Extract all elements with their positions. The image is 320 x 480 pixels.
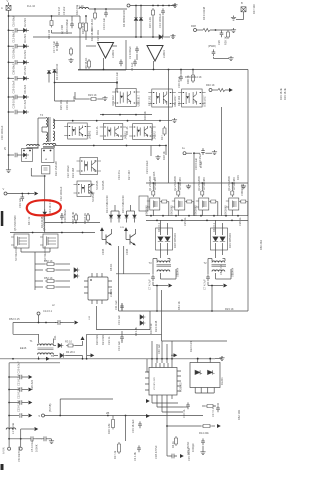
svg-text:R16 1.8k: R16 1.8k	[107, 423, 111, 434]
svg-text:C28 100uF: C28 100uF	[12, 95, 16, 108]
wire	[86, 334, 88, 359]
wire	[207, 388, 209, 394]
svg-text:R45 0.1: R45 0.1	[157, 222, 161, 232]
dual diode D19	[211, 228, 228, 250]
svg-text:R20 62K: R20 62K	[95, 335, 99, 345]
node AC	[37, 312, 40, 315]
svg-text:R19 18.4k: R19 18.4k	[279, 87, 283, 100]
svg-text:2SK2645: 2SK2645	[169, 205, 173, 216]
wire	[151, 399, 153, 403]
svg-text:R12 1R2: R12 1R2	[177, 95, 181, 106]
capacitor C5b	[41, 436, 49, 441]
winding T2 b	[212, 270, 225, 272]
junction	[193, 152, 195, 154]
svg-text:R37 330: R37 330	[252, 4, 256, 14]
svg-text:C16 6.3uF: C16 6.3uF	[194, 157, 198, 170]
node 5VSB	[42, 414, 45, 417]
wire	[86, 45, 96, 47]
resistor R31	[50, 19, 53, 28]
junction	[38, 358, 40, 360]
node Vcc	[4, 192, 7, 195]
svg-text:5V: 5V	[51, 354, 54, 358]
wire	[9, 154, 15, 156]
wire	[231, 210, 233, 216]
svg-text:R62 10K: R62 10K	[237, 410, 241, 420]
svg-text:(PWR): (PWR)	[208, 44, 216, 48]
wire	[192, 70, 194, 74]
diode D4b	[139, 18, 143, 21]
svg-text:VIN RETURN: VIN RETURN	[17, 446, 21, 462]
wire	[17, 154, 23, 156]
connector J2	[241, 7, 246, 12]
wire	[9, 45, 15, 47]
capacitor C6	[55, 320, 63, 325]
wire	[201, 183, 203, 189]
arrow	[180, 454, 184, 458]
svg-text:JA 1R2: JA 1R2	[88, 130, 92, 139]
wire mid bus	[33, 36, 159, 38]
wire	[213, 388, 215, 394]
svg-text:C16 47uF: C16 47uF	[177, 76, 181, 88]
svg-text:R33 56.2K: R33 56.2K	[81, 21, 85, 34]
junction	[157, 5, 159, 7]
wire	[247, 202, 249, 216]
junction	[51, 15, 53, 17]
wire	[74, 92, 76, 99]
wire	[59, 399, 61, 416]
junction	[116, 82, 118, 84]
wire	[42, 126, 46, 128]
svg-text:C5 0.01uF: C5 0.01uF	[30, 439, 34, 452]
ground	[219, 356, 224, 361]
wire	[167, 425, 201, 427]
arrow	[174, 353, 178, 357]
diode D5	[23, 76, 29, 80]
wire	[101, 231, 103, 240]
wire	[116, 83, 118, 93]
wire	[54, 82, 117, 84]
wire	[20, 248, 22, 252]
junction	[75, 222, 77, 224]
capacitor C2	[135, 46, 139, 53]
wire	[44, 209, 46, 212]
wire	[140, 21, 142, 37]
svg-text:C8 4.7uF: C8 4.7uF	[219, 264, 223, 275]
wire	[48, 74, 50, 83]
diode D3a	[47, 71, 51, 74]
svg-text:V: V	[3, 187, 5, 191]
ground	[228, 56, 233, 61]
wire	[17, 29, 23, 31]
wire	[202, 405, 205, 407]
diode D6	[23, 95, 29, 99]
wire	[38, 357, 40, 359]
capacitor C1	[133, 59, 137, 66]
optocoupler U7	[178, 89, 206, 107]
capacitor C19	[138, 421, 142, 428]
svg-text:R18 1K: R18 1K	[162, 151, 166, 160]
capacitor C7	[206, 274, 210, 281]
wire vertical bus D	[193, 153, 195, 216]
junction	[168, 5, 170, 7]
wire T1 pin	[53, 339, 55, 344]
junction	[156, 220, 158, 222]
junction	[156, 310, 158, 312]
resistor R17b	[118, 442, 121, 454]
wire	[17, 61, 23, 63]
wire return	[45, 415, 204, 417]
capacitor C14c	[120, 334, 124, 341]
junction	[12, 358, 14, 360]
wire	[215, 243, 217, 258]
junction	[153, 69, 155, 71]
capacitor C10	[15, 28, 17, 32]
wire	[9, 77, 15, 79]
wire	[100, 114, 152, 116]
junction	[82, 232, 84, 234]
resistor R39	[227, 30, 230, 39]
svg-text:C17 0.1: C17 0.1	[211, 407, 215, 417]
wire T3 pin	[153, 258, 157, 260]
junction	[181, 220, 183, 222]
capacitor C14	[161, 8, 165, 15]
wire	[156, 259, 158, 262]
wire	[127, 210, 135, 212]
junction	[44, 175, 46, 177]
svg-text:R3 10: R3 10	[65, 340, 72, 344]
wire	[9, 111, 15, 113]
svg-text:SC2545: SC2545	[101, 180, 105, 190]
wire	[75, 345, 83, 347]
svg-text:C7 4.7uF: C7 4.7uF	[148, 279, 152, 290]
wire	[169, 259, 171, 262]
svg-text:R19 18.4k: R19 18.4k	[283, 87, 287, 100]
wire	[111, 229, 113, 234]
junction	[177, 182, 179, 184]
svg-text:R35 36.1K: R35 36.1K	[84, 57, 88, 70]
wire	[111, 210, 119, 212]
resistor R50	[45, 263, 56, 266]
arrow	[146, 414, 150, 418]
diode D16	[125, 215, 129, 218]
junction	[200, 215, 202, 217]
wire	[38, 315, 40, 323]
capacitor C22	[20, 400, 22, 404]
wire	[123, 246, 125, 274]
svg-text:APM4048D: APM4048D	[179, 177, 182, 190]
wire	[160, 243, 162, 258]
wire	[56, 263, 70, 265]
svg-text:C17 4.7uF: C17 4.7uF	[52, 40, 56, 53]
wire	[85, 16, 87, 21]
svg-text:C19 18.4uF: C19 18.4uF	[131, 419, 135, 433]
node RETURN	[19, 447, 22, 450]
wire	[183, 406, 188, 408]
wire	[95, 306, 97, 330]
diode D2	[23, 28, 29, 32]
wire	[166, 399, 168, 450]
svg-text:C25 1n: C25 1n	[183, 217, 187, 226]
wire	[37, 118, 39, 148]
wire	[17, 77, 23, 79]
junction	[61, 232, 63, 234]
arrow	[29, 375, 33, 379]
wire	[82, 341, 84, 346]
junction	[8, 29, 10, 31]
capacitor C36	[15, 76, 17, 80]
svg-text:D3 CMR2C30: D3 CMR2C30	[55, 63, 59, 80]
junction	[126, 145, 128, 147]
wire	[31, 175, 44, 177]
arrow	[75, 321, 79, 325]
svg-text:EE16: EE16	[20, 346, 27, 350]
wire	[34, 256, 36, 290]
junction	[32, 232, 34, 234]
svg-text:SC74HC04D: SC74HC04D	[43, 246, 47, 261]
winding T2 a	[212, 261, 225, 263]
junction	[192, 69, 194, 71]
junction	[96, 120, 98, 122]
junction	[188, 215, 190, 217]
diode D20	[72, 268, 77, 272]
wire	[222, 243, 224, 252]
junction	[93, 145, 95, 147]
svg-text:Q2 2SK2645: Q2 2SK2645	[173, 176, 177, 191]
diode D3	[23, 44, 29, 48]
wire	[9, 362, 60, 364]
resistor R30	[94, 11, 97, 20]
svg-text:C9 2n2: C9 2n2	[62, 6, 66, 15]
ground	[231, 16, 236, 21]
arrow	[91, 353, 95, 357]
resistor Q2 source	[185, 200, 194, 203]
svg-text:Q5 SSP2N60: Q5 SSP2N60	[13, 215, 17, 231]
wire	[197, 359, 199, 363]
wire	[174, 3, 176, 6]
svg-text:C20 100n: C20 100n	[96, 29, 100, 41]
wire	[79, 16, 81, 21]
optocoupler U5	[112, 89, 140, 107]
junction	[180, 69, 182, 71]
optocoupler U10	[100, 124, 127, 140]
wire	[217, 202, 219, 216]
wire	[205, 152, 212, 154]
wire	[230, 269, 232, 279]
svg-text:C33 1uF: C33 1uF	[18, 198, 22, 208]
svg-text:R17: R17	[160, 135, 164, 140]
svg-text:U7 EL817: U7 EL817	[203, 95, 207, 107]
svg-text:D7 Z24: D7 Z24	[23, 99, 27, 108]
svg-text:C22 100uF: C22 100uF	[66, 165, 70, 178]
wire	[13, 333, 39, 335]
svg-text:2SK2645: 2SK2645	[223, 205, 227, 216]
junction	[8, 111, 10, 113]
svg-text:Q3 2SK2645: Q3 2SK2645	[197, 176, 201, 191]
svg-text:C2 1000uF: C2 1000uF	[128, 46, 132, 59]
svg-text:C26 1n: C26 1n	[238, 217, 242, 226]
wire	[121, 340, 123, 343]
ground	[186, 184, 191, 189]
ground	[172, 3, 177, 8]
ground	[212, 150, 217, 155]
junction	[45, 322, 47, 324]
ground	[172, 118, 177, 123]
svg-text:FL1.10: FL1.10	[27, 4, 36, 8]
wire	[167, 455, 169, 457]
wire	[63, 322, 74, 324]
mosfet Q3	[196, 198, 209, 210]
diode D10	[23, 153, 29, 157]
wire	[221, 356, 223, 359]
svg-text:R14 1K: R14 1K	[193, 75, 202, 79]
svg-text:C13 1uF: C13 1uF	[117, 315, 121, 325]
svg-text:D15 CMR2C30: D15 CMR2C30	[121, 195, 125, 213]
svg-text:R24 1K8: R24 1K8	[71, 167, 75, 178]
wire	[41, 127, 43, 132]
ground	[49, 439, 54, 444]
wire	[56, 286, 70, 288]
wire	[71, 16, 73, 21]
junction	[20, 438, 22, 440]
resistor Q3 source	[209, 200, 218, 203]
junction	[151, 358, 153, 360]
junction	[156, 285, 158, 287]
junction	[8, 15, 10, 17]
wire gate rail	[146, 182, 248, 184]
junction	[152, 182, 154, 184]
wire	[177, 183, 179, 189]
resistor R44b	[175, 436, 178, 446]
diode D17	[133, 215, 137, 218]
junction	[8, 389, 10, 391]
wire	[21, 428, 34, 430]
resistor R17	[163, 126, 166, 136]
winding T4 secondary	[53, 119, 55, 129]
op-amp U4	[147, 46, 163, 62]
wire	[160, 220, 162, 235]
svg-text:C15 68uF: C15 68uF	[12, 47, 16, 59]
svg-text:1000pF: 1000pF	[191, 443, 195, 452]
wire	[162, 16, 164, 37]
wire	[7, 193, 34, 195]
wire	[125, 231, 127, 240]
capacitor C5	[28, 436, 36, 441]
svg-text:D4 Z24: D4 Z24	[23, 50, 27, 59]
svg-text:R22 0.R1: R22 0.R1	[189, 340, 193, 352]
diode D12	[43, 212, 47, 215]
wire block bottom	[78, 69, 126, 71]
wire	[118, 246, 120, 311]
wire	[35, 286, 43, 288]
wire	[215, 358, 222, 360]
wire	[162, 340, 228, 342]
arrow	[217, 424, 221, 428]
node Vin	[8, 447, 11, 450]
wire	[126, 211, 128, 215]
wire	[164, 36, 170, 38]
junction	[209, 358, 211, 360]
wire return bus	[119, 310, 248, 312]
wire	[56, 49, 58, 51]
wire	[197, 29, 204, 31]
junction	[168, 69, 170, 71]
wire T3 sec	[160, 273, 162, 279]
svg-text:D5 Z24: D5 Z24	[23, 66, 27, 75]
wire	[194, 152, 200, 154]
wire	[161, 341, 163, 359]
svg-text:SC1R5: SC1R5	[152, 171, 156, 180]
wire	[22, 415, 28, 417]
resistor R36b	[192, 73, 195, 83]
wire left block edge	[79, 28, 81, 70]
svg-text:D6 Z24: D6 Z24	[23, 84, 27, 93]
wire right block edge	[125, 40, 127, 70]
capacitor C24	[201, 148, 205, 155]
junction	[135, 114, 137, 116]
wire	[210, 29, 232, 31]
svg-text:D9 1N4148: D9 1N4148	[202, 6, 206, 20]
wire	[45, 222, 100, 224]
wire	[134, 218, 136, 222]
wire	[51, 16, 53, 19]
wire	[208, 285, 223, 287]
driver box A	[22, 149, 33, 162]
junction	[159, 145, 161, 147]
wire	[20, 439, 22, 447]
capacitor C17c	[216, 405, 220, 412]
box D16	[139, 196, 148, 211]
svg-text:R12 JA: R12 JA	[95, 126, 99, 135]
wire	[201, 210, 203, 216]
resistor Q1 source	[160, 200, 169, 203]
wire	[213, 57, 215, 59]
wire	[85, 33, 87, 40]
svg-text:D4 MBR20100: D4 MBR20100	[122, 9, 126, 27]
inductor L10	[79, 7, 89, 9]
wire	[212, 425, 215, 427]
wire	[161, 290, 163, 341]
resistor R16	[112, 418, 115, 430]
wire	[54, 73, 56, 101]
wire T2 sec	[215, 273, 217, 279]
junction	[225, 215, 227, 217]
svg-text:A: A	[1, 6, 3, 10]
wire	[38, 117, 46, 119]
resistor R3	[66, 344, 75, 347]
resistor R40	[218, 88, 225, 91]
junction	[61, 222, 63, 224]
junction	[152, 36, 154, 38]
svg-text:R23 1K: R23 1K	[225, 307, 234, 311]
junction	[156, 358, 158, 360]
resistor gate Q4	[231, 189, 234, 197]
svg-text:C4 1.8k: C4 1.8k	[133, 451, 137, 461]
junction	[166, 358, 168, 360]
ground	[155, 155, 160, 160]
arrow	[29, 414, 33, 418]
capacitor C15b	[119, 59, 123, 66]
svg-text:C32 1000uF: C32 1000uF	[59, 186, 63, 201]
svg-text:SC2545: SC2545	[95, 180, 99, 190]
svg-text:APM4048D: APM4048D	[203, 177, 206, 190]
svg-text:D24 4148: D24 4148	[154, 320, 158, 332]
ground	[241, 184, 246, 189]
wire	[166, 344, 168, 359]
wire	[167, 243, 169, 252]
ground	[200, 450, 205, 455]
diode D19a	[213, 237, 218, 242]
winding T3 b	[157, 270, 170, 272]
